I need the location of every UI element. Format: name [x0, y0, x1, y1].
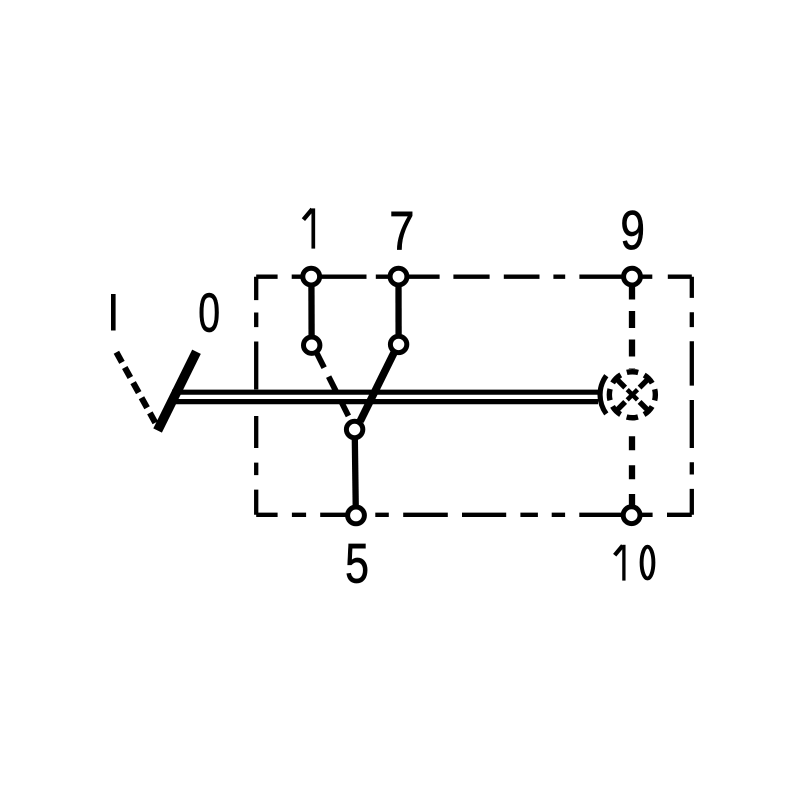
switch body outline: top edge (dash segments) [256, 275, 692, 279]
switch body outline: left edge (dash segments) [254, 277, 258, 515]
terminal 9 [624, 268, 641, 285]
label 10: digit 1 flag [615, 546, 623, 556]
wire lamp to terminal 10 (dashed) [629, 421, 635, 494]
svg-text:0: 0 [198, 283, 220, 344]
svg-text:7: 7 [389, 201, 414, 262]
actuator bar (double line) bottom line [172, 399, 598, 404]
terminal 5 [348, 507, 365, 524]
illumination lamp: X arm upper-left [615, 378, 625, 388]
wire common contact to terminal 5 [355, 437, 356, 512]
illumination lamp: X arm lower-left [615, 402, 625, 412]
label 1: flag [303, 209, 312, 219]
label 10: digit 1 stem [622, 545, 625, 581]
wire terminal 1 to fixed contact [308, 277, 315, 336]
terminal 7 [390, 268, 407, 285]
fixed contact under terminal 1 [304, 337, 320, 353]
wire terminal 7 to fixed contact [395, 277, 401, 335]
illumination lamp: outer dashed circle [609, 372, 655, 418]
label I (switch position) [111, 294, 116, 331]
svg-text:9: 9 [620, 200, 645, 262]
label 10: digit 0 ring [642, 547, 654, 579]
illumination lamp: centre cross stroke 2 [627, 390, 637, 400]
terminal 1 [303, 268, 320, 285]
mechanical link arc at lamp [600, 376, 606, 414]
switch body outline: bottom edge (dash segments) [256, 513, 692, 517]
moving contact 1-5 (open position, dashed) [317, 353, 351, 420]
rocker lever (solid, position 0) [158, 352, 197, 431]
wire stub terminal 9 down [629, 277, 635, 300]
label 1: stem [311, 208, 315, 248]
wire stub terminal 10 up [629, 494, 635, 514]
terminal 10 [623, 507, 640, 524]
common contact node [346, 421, 362, 437]
svg-text:5: 5 [345, 532, 369, 595]
rocker lever alternate position I (dashed) [116, 352, 155, 422]
moving contact 7-5 (closed, solid) [360, 352, 394, 421]
illumination lamp: X arm lower-right [640, 402, 650, 412]
wire terminal 9 to lamp (dashed) [629, 300, 635, 369]
switch body outline: right edge (dash segments) [690, 277, 694, 515]
illumination lamp: centre cross stroke 1 [627, 390, 637, 400]
illumination lamp: X arm upper-right [640, 378, 650, 388]
actuator bar (double line) top line [172, 390, 598, 395]
fixed contact under terminal 7 [390, 336, 406, 352]
